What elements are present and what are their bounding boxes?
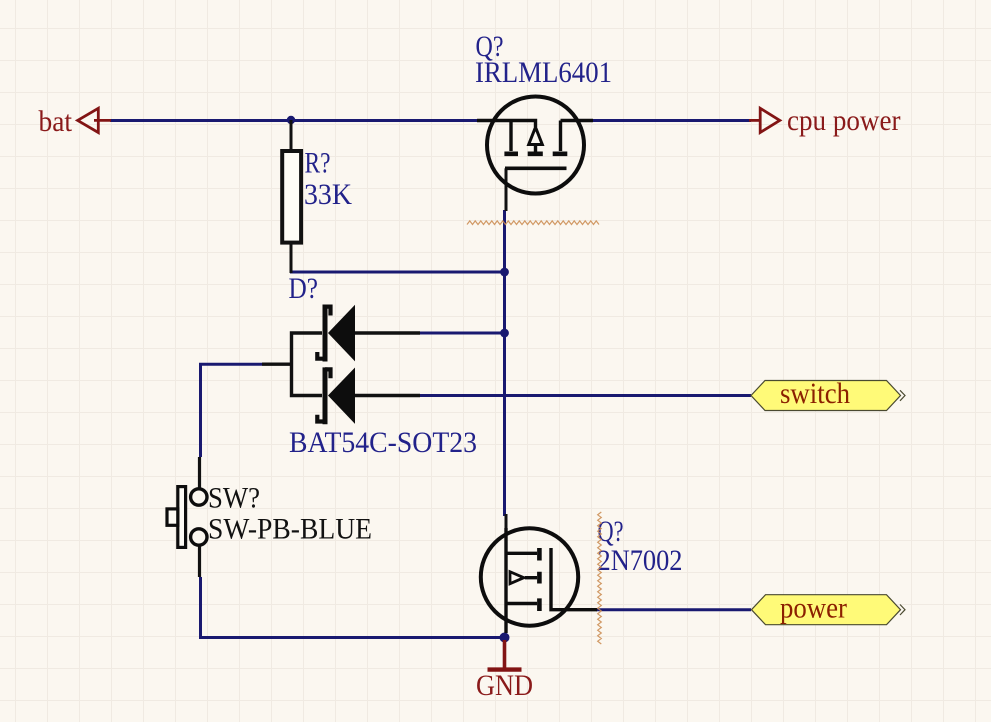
transistor Q1 source path	[477, 121, 536, 128]
wire vertical gate net	[503, 210, 506, 516]
wire D1 bottom anode to switch port	[420, 394, 751, 397]
wire bat to Q1 source	[110, 119, 477, 122]
diode D1b anode triangle	[328, 368, 355, 424]
transistor Q2 body circle	[481, 528, 578, 625]
resistor R1 pins	[290, 120, 293, 273]
ground symbol	[503, 640, 507, 668]
resistor R1 body	[282, 151, 301, 243]
transistor Q2 2N7002 drain pin	[505, 514, 508, 529]
junction node D1 anode/gate net	[500, 329, 509, 338]
wire Q1 drain to cpu power port	[593, 119, 751, 122]
svg-text:GND: GND	[476, 669, 533, 702]
harness port power	[752, 595, 901, 625]
wire Q2 gate to power port	[596, 608, 751, 611]
transistor Q1 drain path	[561, 121, 594, 152]
diode D1a anode triangle	[328, 305, 355, 362]
transistor Q2 source stub	[506, 602, 537, 605]
wire D1 top anode to gate net	[420, 332, 505, 335]
transistor Q1 body circle	[487, 97, 584, 194]
transistor Q1 IRLML6401 pins	[505, 168, 508, 211]
transistor Q1 channel bars	[504, 152, 567, 157]
wire switch bottom to source node	[201, 577, 505, 638]
port cpu power	[749, 108, 780, 132]
switch SW1 top contact	[191, 489, 207, 505]
wire diode common to switch stem	[201, 364, 263, 457]
compile mark under Q1	[467, 221, 599, 225]
transistor Q1 gate bar	[505, 167, 567, 171]
compile mark right of Q2	[598, 512, 602, 644]
svg-text:cpu power: cpu power	[787, 104, 901, 137]
transistor Q1 body arrow	[529, 127, 543, 144]
diode D1a cathode bar	[323, 305, 328, 362]
diode D1a anode pin	[355, 331, 420, 334]
switch SW1 actuator bar	[178, 487, 186, 548]
switch SW1 pins	[198, 457, 201, 577]
wire R1 bottom to gate node	[290, 271, 505, 274]
diode D1 bracket	[292, 333, 323, 396]
svg-text:SW-PB-BLUE: SW-PB-BLUE	[208, 513, 372, 546]
switch SW1 bottom contact	[191, 529, 207, 545]
svg-text:power: power	[780, 592, 847, 625]
junction node bat/R1	[287, 116, 295, 124]
svg-text:BAT54C-SOT23: BAT54C-SOT23	[289, 426, 477, 459]
svg-text:switch: switch	[780, 377, 850, 410]
port bat	[78, 108, 111, 132]
svg-text:2N7002: 2N7002	[598, 544, 683, 577]
diode D1b anode pin	[355, 394, 420, 397]
transistor Q2 gate bar and pin	[551, 548, 597, 610]
svg-text:D?: D?	[289, 272, 319, 305]
transistor Q2 main vertical	[504, 528, 507, 633]
switch SW1 actuator stem	[167, 509, 178, 525]
harness port switch	[751, 381, 901, 411]
junction node R1/gate net	[500, 268, 509, 277]
svg-text:R?: R?	[305, 147, 331, 180]
transistor Q2 drain stub	[506, 552, 537, 555]
transistor Q1 left stub	[509, 121, 512, 152]
svg-text:33K: 33K	[304, 178, 352, 211]
transistor Q2 body arrow	[510, 572, 524, 584]
diode D1 common pin	[262, 363, 292, 366]
transistor Q2 channel bars	[537, 548, 542, 611]
svg-text:SW?: SW?	[208, 482, 260, 515]
junction node source/GND	[500, 633, 510, 643]
svg-text:IRLML6401: IRLML6401	[475, 56, 612, 89]
svg-text:bat: bat	[39, 105, 73, 138]
diode D1b cathode bar	[323, 367, 328, 424]
